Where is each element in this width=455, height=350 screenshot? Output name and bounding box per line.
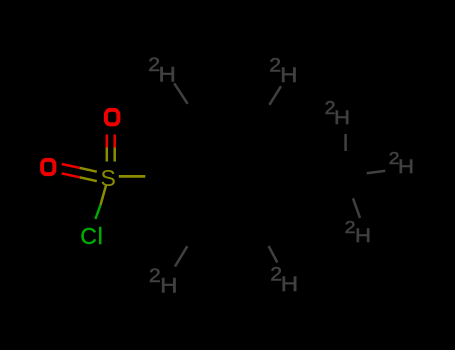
svg-text:2: 2	[345, 217, 356, 237]
svg-text:H: H	[280, 64, 297, 87]
svg-text:H: H	[281, 273, 298, 296]
svg-text:S: S	[101, 165, 116, 191]
svg-text:H: H	[355, 226, 371, 247]
svg-text:H: H	[334, 108, 350, 129]
svg-text:H: H	[398, 157, 414, 178]
svg-text:2: 2	[149, 265, 161, 287]
svg-text:H: H	[160, 274, 177, 297]
svg-text:H: H	[159, 63, 176, 86]
svg-text:Cl: Cl	[80, 223, 103, 249]
